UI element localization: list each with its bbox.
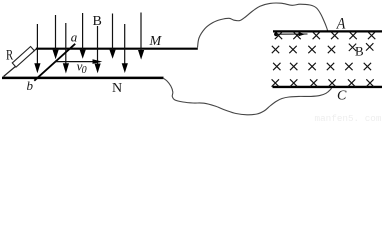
connecting wire (bottom, rail N to plate C) <box>163 78 332 115</box>
x field row 4 <box>272 79 374 86</box>
capacitor plate A (top) <box>273 30 382 32</box>
svg-text:b: b <box>27 78 34 93</box>
connecting wire (top, rail M to plate A) <box>198 3 328 48</box>
field arrow 4 (back row) <box>80 13 86 59</box>
capacitor plate C (bottom) <box>273 86 383 88</box>
svg-text:0: 0 <box>82 65 87 76</box>
velocity arrow v0 on rod <box>56 59 103 64</box>
x field row 3 <box>273 63 371 70</box>
particle velocity arrow <box>276 32 308 36</box>
svg-text:A: A <box>336 16 346 33</box>
svg-text:a: a <box>71 29 78 44</box>
rail N (bottom horizontal rail) <box>2 77 164 80</box>
svg-text:M: M <box>149 34 163 49</box>
svg-text:manfen5. com: manfen5. com <box>315 113 382 122</box>
rod ab (sliding conductor) <box>34 44 75 81</box>
svg-text:N: N <box>112 81 122 96</box>
field arrow 2 (back row) <box>53 15 59 59</box>
field arrow 5 (front row) <box>95 26 101 73</box>
field arrow 7 (front row) <box>122 24 128 73</box>
rail M (top horizontal rail) <box>36 48 198 50</box>
field arrow 8 (back row) <box>138 13 144 60</box>
field arrow 1 (front row) <box>34 24 40 73</box>
resistor R body <box>12 46 34 67</box>
field arrow 3 (front row) <box>63 23 69 74</box>
x field row 1 <box>275 32 376 39</box>
svg-text:R: R <box>6 47 13 63</box>
charged particle entering capacitor <box>274 32 278 36</box>
wire from rail N left end to resistor R to rail M left end <box>4 49 37 77</box>
svg-text:B: B <box>355 44 364 59</box>
x field row 2 <box>272 43 374 53</box>
svg-text:B: B <box>93 14 102 29</box>
field arrow 6 (back row) <box>109 14 115 59</box>
svg-text:C: C <box>337 89 347 104</box>
